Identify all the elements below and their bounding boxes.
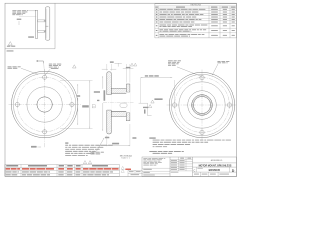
note below inset box xyxy=(7,50,14,51)
right view centerline vertical xyxy=(201,70,203,141)
detail: screw upper xyxy=(38,20,46,22)
sheet border frame xyxy=(5,3,237,176)
general notes header xyxy=(149,138,155,139)
detail callout note text xyxy=(12,10,28,15)
BOM flag triangles xyxy=(121,166,124,169)
right view bolt hole N xyxy=(200,75,204,79)
revisions data rows xyxy=(155,9,237,37)
right view bolt circle xyxy=(175,78,230,133)
left view rim circle xyxy=(13,73,75,135)
svg-text:C: C xyxy=(193,169,195,172)
left view centerline vertical xyxy=(44,69,46,147)
section: flange disc cut xyxy=(107,72,112,134)
BOM column lines xyxy=(21,165,82,177)
left view bolt hole E xyxy=(70,102,74,106)
revisions table frame xyxy=(155,4,237,38)
disc thickness dim xyxy=(102,68,107,70)
right view recess circle xyxy=(179,82,225,128)
left view callout dia thru xyxy=(49,63,52,66)
notes list lines xyxy=(65,145,113,156)
leader to flange edge xyxy=(21,68,38,74)
right view bolt hole W xyxy=(172,103,176,107)
section: hub upper wall xyxy=(111,88,126,93)
left view bore circle xyxy=(37,97,52,112)
BOM row lines xyxy=(5,166,120,168)
right view bore circle xyxy=(194,97,211,114)
left view right-side dims xyxy=(60,79,93,81)
right view centerline horizontal xyxy=(167,104,237,106)
right view thread texture ring xyxy=(193,96,212,115)
left view bolt hole W xyxy=(15,102,19,106)
right view callout top-right xyxy=(217,60,220,63)
tolerance box text xyxy=(143,158,165,165)
right view bolt hole S xyxy=(200,130,204,134)
title bottom row xyxy=(199,172,201,176)
section top dims xyxy=(106,64,108,71)
detail: flange disc side view xyxy=(46,7,50,40)
section: hub lower wall xyxy=(111,112,126,117)
size cell xyxy=(195,167,197,172)
right view boss circle xyxy=(188,91,217,120)
section centerline xyxy=(103,101,134,103)
datum flags A A xyxy=(83,161,86,164)
bottom dim 1.38 xyxy=(31,146,37,148)
flange leader note xyxy=(91,151,95,154)
left view boss circle xyxy=(27,87,62,122)
revisions column lines xyxy=(158,6,230,38)
detail leader line xyxy=(29,10,36,12)
right view bolt hole E xyxy=(227,103,231,107)
material note xyxy=(149,150,157,153)
flag triangle near callout xyxy=(73,65,77,68)
detail label text xyxy=(7,46,10,47)
BOM header row xyxy=(6,165,108,166)
right view rim circle xyxy=(171,74,232,135)
section left dim vertical text xyxy=(102,76,104,89)
left view bolt hole S xyxy=(43,130,47,134)
section: slot detail in bore xyxy=(120,103,127,107)
right view left dims xyxy=(141,77,173,79)
BOM red note outside table xyxy=(125,169,131,170)
detail inset view box xyxy=(54,3,56,49)
right view callout top-left xyxy=(168,60,181,65)
svg-text:D: D xyxy=(232,169,235,173)
flag triangles pair xyxy=(131,63,134,66)
left view outer circle xyxy=(11,71,77,137)
right view counterbore circle xyxy=(192,95,213,116)
general notes lines xyxy=(153,140,231,148)
section: bore gap through disc xyxy=(106,95,111,110)
left view bolt hole N xyxy=(43,75,47,79)
detail: mid tick xyxy=(46,25,49,27)
detail: mounting plate side xyxy=(35,10,37,38)
BOM red highlighted row xyxy=(6,168,119,169)
right view outer circle xyxy=(169,72,234,137)
svg-text:REVISIONS: REVISIONS xyxy=(191,5,202,7)
leader to hole N xyxy=(45,69,50,75)
BOM row 4 xyxy=(6,174,109,175)
ring width dim xyxy=(123,68,127,70)
left view bolt circle xyxy=(17,77,72,132)
svg-text:MOTOR MOUNT, BRUSHLESS: MOTOR MOUNT, BRUSHLESS xyxy=(199,165,232,167)
detail: screw lower xyxy=(38,30,46,32)
title block dividers xyxy=(169,157,171,177)
title block frame xyxy=(142,157,237,177)
section bottom dims xyxy=(105,137,109,139)
section arrow top xyxy=(38,60,44,62)
flag note triangle xyxy=(8,42,12,46)
application block xyxy=(128,170,142,176)
datum T leader xyxy=(115,62,122,64)
left view callout note xyxy=(8,65,12,68)
datum feature box xyxy=(92,105,95,108)
revisions column header row xyxy=(155,7,237,9)
notes list header xyxy=(65,143,68,144)
section: end ring xyxy=(126,84,130,121)
BOM table frame xyxy=(5,165,120,177)
detail dim text xyxy=(17,19,22,20)
approvals grid xyxy=(170,157,193,173)
BOM row 3 xyxy=(6,171,113,172)
title box rows xyxy=(193,162,237,164)
tolerance box sub rows xyxy=(142,168,170,175)
left view centerline horizontal xyxy=(9,104,82,106)
section: bore lines xyxy=(111,92,126,94)
detail bottom dim xyxy=(28,36,34,37)
